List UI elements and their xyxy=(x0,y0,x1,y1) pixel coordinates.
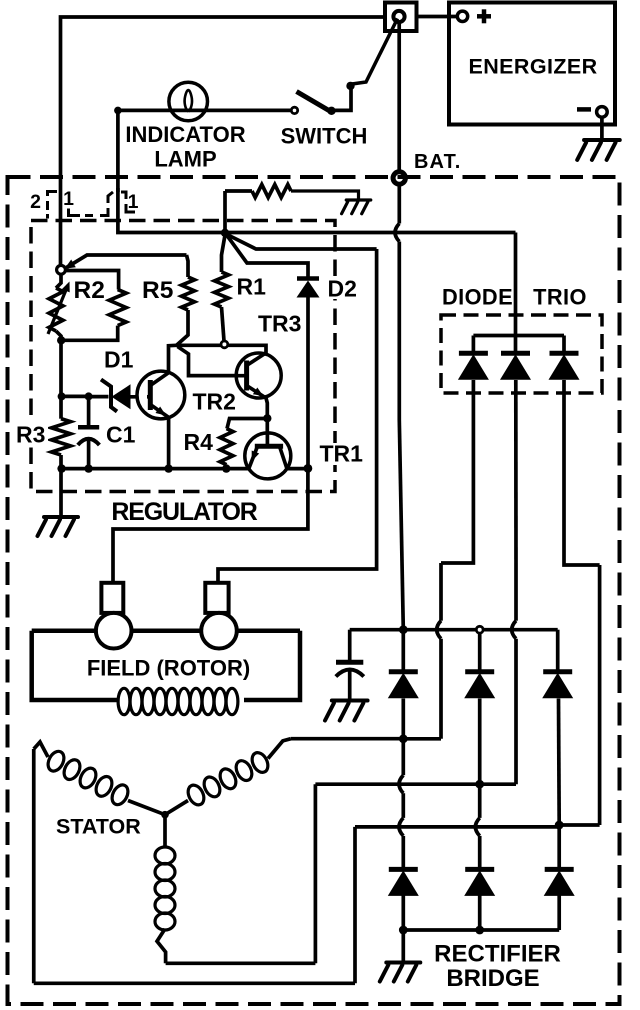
wire bridge string3 xyxy=(557,699,561,931)
wire BAT vertical upper xyxy=(397,22,401,170)
resistor R2b (parallel) xyxy=(65,271,126,341)
wire bridge top bus xyxy=(403,630,557,672)
svg-text:DIODE: DIODE xyxy=(442,285,513,310)
field rotor box xyxy=(32,631,300,700)
wire trio3 out xyxy=(559,380,599,825)
wire down to R2 xyxy=(56,274,61,288)
transistor TR1 xyxy=(245,433,291,479)
resistor R5 xyxy=(182,277,195,310)
node BAT terminal xyxy=(393,172,405,184)
svg-text:R4: R4 xyxy=(184,429,214,455)
wire bridge bottom bus xyxy=(403,930,559,963)
enclosure outer dashed box xyxy=(8,177,620,1004)
svg-text:INDICATOR: INDICATOR xyxy=(125,122,245,147)
node R2 bottom xyxy=(57,336,65,344)
indicator lamp DS1 xyxy=(169,82,208,121)
ground of R6 xyxy=(342,200,371,214)
capacitor C2 xyxy=(336,630,403,700)
regulator dashed box xyxy=(31,221,335,492)
stator coil middle xyxy=(155,815,175,964)
svg-text:D2: D2 xyxy=(328,276,357,302)
label INDICATOR LAMP xyxy=(125,122,245,172)
wire terminal to energizer + xyxy=(417,15,457,19)
rectifier diode D10 (bottom2) xyxy=(464,869,495,896)
wire BAT main vertical xyxy=(395,186,403,630)
switch S1 xyxy=(291,19,397,116)
diode trio D4 xyxy=(500,353,531,380)
diode trio D5 xyxy=(549,353,580,380)
node TR3 emitter junction xyxy=(263,414,271,433)
ground rectifier bridge xyxy=(380,963,421,982)
svg-text:SWITCH: SWITCH xyxy=(281,124,368,149)
wire R5 top xyxy=(187,255,189,277)
wire phase3 xyxy=(34,749,559,983)
wire R2 bottom xyxy=(56,331,61,341)
wire node1 to R1 xyxy=(222,235,226,272)
node rail R4/TR1 xyxy=(222,464,230,472)
rectifier diode D6 (top1) xyxy=(388,672,419,699)
rectifier diode D8 (top3) xyxy=(542,672,573,699)
connector pin 2 bracket xyxy=(48,192,58,219)
rectifier diode D7 (top2) xyxy=(464,672,495,699)
connector pin 1 bracket (left) xyxy=(69,209,94,216)
node rail TR2 xyxy=(164,464,172,472)
node phase3 xyxy=(555,821,564,830)
wire fork to TR2 collector xyxy=(169,345,177,373)
svg-text:TR2: TR2 xyxy=(193,389,236,415)
wire field feed vertical xyxy=(218,249,377,583)
svg-text:ENERGIZER: ENERGIZER xyxy=(468,55,597,79)
wire R6 to node 1 xyxy=(223,191,227,233)
energizer - terminal xyxy=(597,107,608,118)
connector bracket (right pair) xyxy=(100,192,135,216)
label D2 patch xyxy=(325,277,359,299)
wire fork to TR3 base xyxy=(178,347,246,376)
resistor R4 xyxy=(220,429,233,469)
diode D2 (zener) xyxy=(297,279,320,467)
ground energizer xyxy=(577,140,620,160)
wire phase1 xyxy=(291,737,403,741)
field terminal left xyxy=(96,583,132,649)
wire top feed xyxy=(61,17,386,267)
svg-text:1: 1 xyxy=(128,191,139,213)
label TR1 background patch xyxy=(316,443,361,465)
wire R5 bottom fork xyxy=(177,310,189,345)
field terminal right xyxy=(201,583,237,649)
node bottom bus 2 xyxy=(475,926,484,935)
node 1 (fan node) xyxy=(221,229,229,237)
node rail R3 xyxy=(57,464,65,472)
node bus BAT xyxy=(399,625,408,634)
wire node1 horizontal (lamp to diode trio) xyxy=(118,188,516,233)
node phase1 xyxy=(399,734,408,743)
wire bridge string2 xyxy=(475,699,479,931)
rectifier diode D9 (bottom1) xyxy=(388,869,419,896)
svg-text:R1: R1 xyxy=(237,274,267,300)
svg-text:BRIDGE: BRIDGE xyxy=(446,965,539,992)
wire phase2 xyxy=(166,784,480,963)
stator coil right xyxy=(165,739,291,815)
svg-text:D1: D1 xyxy=(104,347,134,373)
label REGULATOR xyxy=(108,495,260,526)
wire left column xyxy=(59,341,63,517)
wire trio bus xyxy=(473,336,564,354)
wire junction to R4 xyxy=(227,419,265,429)
svg-text:REGULATOR: REGULATOR xyxy=(111,498,257,526)
svg-text:C1: C1 xyxy=(106,422,136,448)
wire fork to TR3 collector (via R1 node) xyxy=(177,345,267,353)
stator coil left xyxy=(34,742,165,815)
node phase2 xyxy=(475,780,484,789)
svg-text:2: 2 xyxy=(30,191,41,213)
energizer box U-ENG xyxy=(449,3,615,125)
transistor TR2 xyxy=(137,371,185,469)
ground regulator xyxy=(38,517,79,536)
svg-text:R5: R5 xyxy=(142,277,173,304)
svg-text:LAMP: LAMP xyxy=(154,147,216,172)
stator center node xyxy=(161,811,169,819)
node C1 top rail xyxy=(58,392,93,400)
plus sign xyxy=(477,9,491,23)
wire node1 to field feed xyxy=(228,235,377,249)
node bottom bus 1 xyxy=(399,926,408,935)
node lamp-left xyxy=(114,107,122,115)
rotor coil xyxy=(118,688,238,714)
wire trio1 out xyxy=(403,380,473,739)
energizer + terminal xyxy=(457,11,467,21)
rectifier diode D11 (bottom3) xyxy=(544,869,575,896)
svg-text:FIELD (ROTOR): FIELD (ROTOR) xyxy=(87,656,250,681)
wire TR1 collector down to field xyxy=(113,469,308,583)
resistor R3 xyxy=(52,419,71,455)
wire emitter rail xyxy=(62,467,249,471)
wire bridge string1 xyxy=(399,630,403,930)
capacitor C1 xyxy=(78,400,100,469)
svg-text:TR3: TR3 xyxy=(258,311,301,337)
svg-text:TR1: TR1 xyxy=(320,441,364,467)
ground C2 xyxy=(325,701,368,721)
node rail C1 xyxy=(84,464,92,472)
wire regulator supply with arrow into node xyxy=(65,255,187,269)
diode trio D3 xyxy=(458,353,489,380)
terminal T1 (square output terminal) xyxy=(385,3,417,32)
diode D1 (zener) xyxy=(92,380,147,412)
wire energizer - to ground xyxy=(600,117,604,140)
arrow through R2 xyxy=(48,282,70,335)
resistor R6 (top, to ground) xyxy=(225,185,359,200)
wire node1 to D2 xyxy=(227,236,308,278)
label RECTIFIER BRIDGE xyxy=(434,941,561,993)
wire diode trio feed xyxy=(514,233,518,336)
node R2 top (ring) xyxy=(57,265,66,274)
svg-text:R2: R2 xyxy=(74,277,105,304)
svg-text:RECTIFIER: RECTIFIER xyxy=(434,941,561,968)
svg-text:STATOR: STATOR xyxy=(56,815,141,839)
svg-text:R3: R3 xyxy=(16,422,45,448)
wire trio2 out xyxy=(480,380,516,784)
svg-text:TRIO: TRIO xyxy=(533,285,587,310)
node bus ring xyxy=(476,626,483,671)
node R1 bottom (ring) xyxy=(221,341,228,348)
wire lamp rail xyxy=(118,110,293,192)
node TR1 collector xyxy=(304,464,313,473)
resistor R1 xyxy=(215,272,229,341)
svg-text:BAT.: BAT. xyxy=(414,151,461,173)
wire TR1 collector link xyxy=(287,467,308,471)
transistor TR3 xyxy=(189,353,282,416)
label DIODE TRIO xyxy=(442,285,587,310)
label R3 patch xyxy=(14,423,48,445)
resistor R2 (variable, left) xyxy=(49,288,63,331)
svg-text:1: 1 xyxy=(63,188,74,210)
minus sign xyxy=(577,107,591,112)
diode trio dashed box xyxy=(441,315,602,393)
